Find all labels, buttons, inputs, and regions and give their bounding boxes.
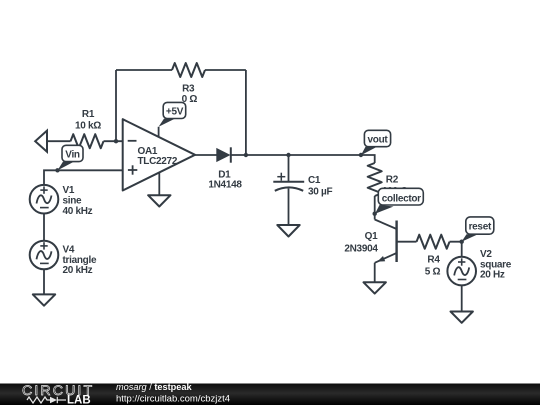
resistor R1: [71, 134, 104, 148]
ground GND-left (input port, rotated): [35, 131, 47, 152]
svg-text:R3: R3: [182, 84, 195, 95]
svg-text:TLC2272: TLC2272: [138, 156, 178, 167]
wire: V1 to V4: [43, 214, 45, 241]
wire: R2 to Q1 collector: [374, 196, 376, 220]
junction: feedback tap on output: [244, 153, 248, 157]
wire: feedback right vertical: [245, 70, 247, 155]
node collector flag: [375, 188, 423, 213]
svg-text:mosarg / testpeak: mosarg / testpeak: [116, 382, 192, 392]
wire: feedback left vertical: [115, 70, 117, 141]
label R2 value (hidden behind collector flag): [382, 186, 408, 197]
svg-text:http://circuitlab.com/cbzjzt4: http://circuitlab.com/cbzjzt4: [116, 394, 230, 405]
label V2: [480, 249, 512, 280]
svg-text:40 kHz: 40 kHz: [63, 206, 93, 217]
svg-text:LAB: LAB: [67, 395, 91, 405]
svg-text:vout: vout: [368, 134, 389, 145]
label V4: [63, 245, 97, 276]
ground below C1: [277, 225, 299, 237]
junction: collector tap: [373, 212, 377, 216]
ground below Q1 emitter: [364, 282, 386, 293]
footer title text: [116, 382, 230, 405]
svg-text:R1: R1: [82, 109, 95, 120]
wire: V2 to ground: [461, 285, 463, 311]
diode D1: [216, 147, 231, 162]
junction: reset tap: [460, 240, 464, 244]
svg-text:Q1: Q1: [365, 231, 378, 242]
label R2: [386, 175, 399, 186]
wire: left ground to R1: [47, 140, 71, 142]
svg-text:collector: collector: [382, 194, 421, 205]
svg-text:20 kHz: 20 kHz: [63, 265, 93, 276]
svg-text:1N4148: 1N4148: [208, 179, 242, 190]
resistor R4: [417, 235, 450, 249]
power label +5V: [159, 102, 186, 126]
junction: inverting input / feedback: [114, 139, 118, 143]
capacitor C1: [273, 155, 304, 225]
wire: op-amp negative supply pin to ground: [158, 172, 160, 195]
label OA1: [138, 146, 178, 167]
svg-text:reset: reset: [469, 221, 492, 232]
wire: +5V pin: [158, 127, 160, 137]
label R3 value: [182, 84, 198, 105]
resistor R3: [172, 63, 205, 77]
wire: op-amp output to diode: [195, 154, 217, 156]
transistor Q1: [375, 220, 397, 263]
source V1: [30, 185, 59, 214]
node Vin flag: [58, 145, 84, 170]
wire: V4 to ground: [43, 269, 45, 294]
wire: V1 top to op-amp non-inverting input: [44, 170, 123, 185]
label V1: [63, 185, 93, 217]
footer logo CIRCUIT LAB: [22, 383, 94, 405]
svg-text:30 µF: 30 µF: [308, 186, 332, 197]
wire: R4 to V2: [450, 242, 462, 257]
wire: R1 to op-amp inverting input: [104, 140, 123, 142]
op-amp OA1: [123, 119, 195, 190]
footer bar: [0, 384, 540, 405]
svg-text:C1: C1: [308, 175, 321, 186]
label D1: [208, 169, 242, 190]
svg-text:5 Ω: 5 Ω: [425, 267, 441, 278]
wire: diode to R2 corner (output net): [230, 155, 374, 163]
label C1: [308, 175, 332, 197]
junction: Vin tap: [55, 168, 59, 172]
ground below V4: [33, 294, 55, 305]
wire: Q1 base to R4: [397, 241, 417, 243]
node vout flag: [361, 130, 391, 155]
svg-text:R2: R2: [386, 175, 399, 186]
resistor R2: [368, 163, 382, 196]
svg-text:V1: V1: [63, 185, 75, 196]
svg-text:Vin: Vin: [65, 149, 80, 160]
wire: feedback top right segment: [205, 69, 246, 71]
ground below op-amp: [148, 195, 170, 206]
source V4: [30, 241, 59, 270]
wire: Q1 emitter to ground: [374, 263, 376, 283]
svg-text:+5V: +5V: [166, 107, 184, 118]
svg-text:R4: R4: [427, 255, 440, 266]
node reset flag: [462, 217, 494, 242]
source V2: [447, 257, 476, 286]
svg-text:20 Hz: 20 Hz: [480, 269, 505, 280]
ground below V2: [451, 312, 473, 323]
label R1 value: [75, 109, 101, 132]
svg-text:2N3904: 2N3904: [344, 244, 378, 255]
label Q1: [344, 231, 378, 254]
wire: feedback top left segment: [116, 69, 172, 71]
junction: C1 tap: [286, 153, 290, 157]
junction: vout tap: [359, 153, 363, 157]
svg-text:10 kΩ: 10 kΩ: [75, 121, 101, 132]
label R4 value: [425, 255, 441, 278]
